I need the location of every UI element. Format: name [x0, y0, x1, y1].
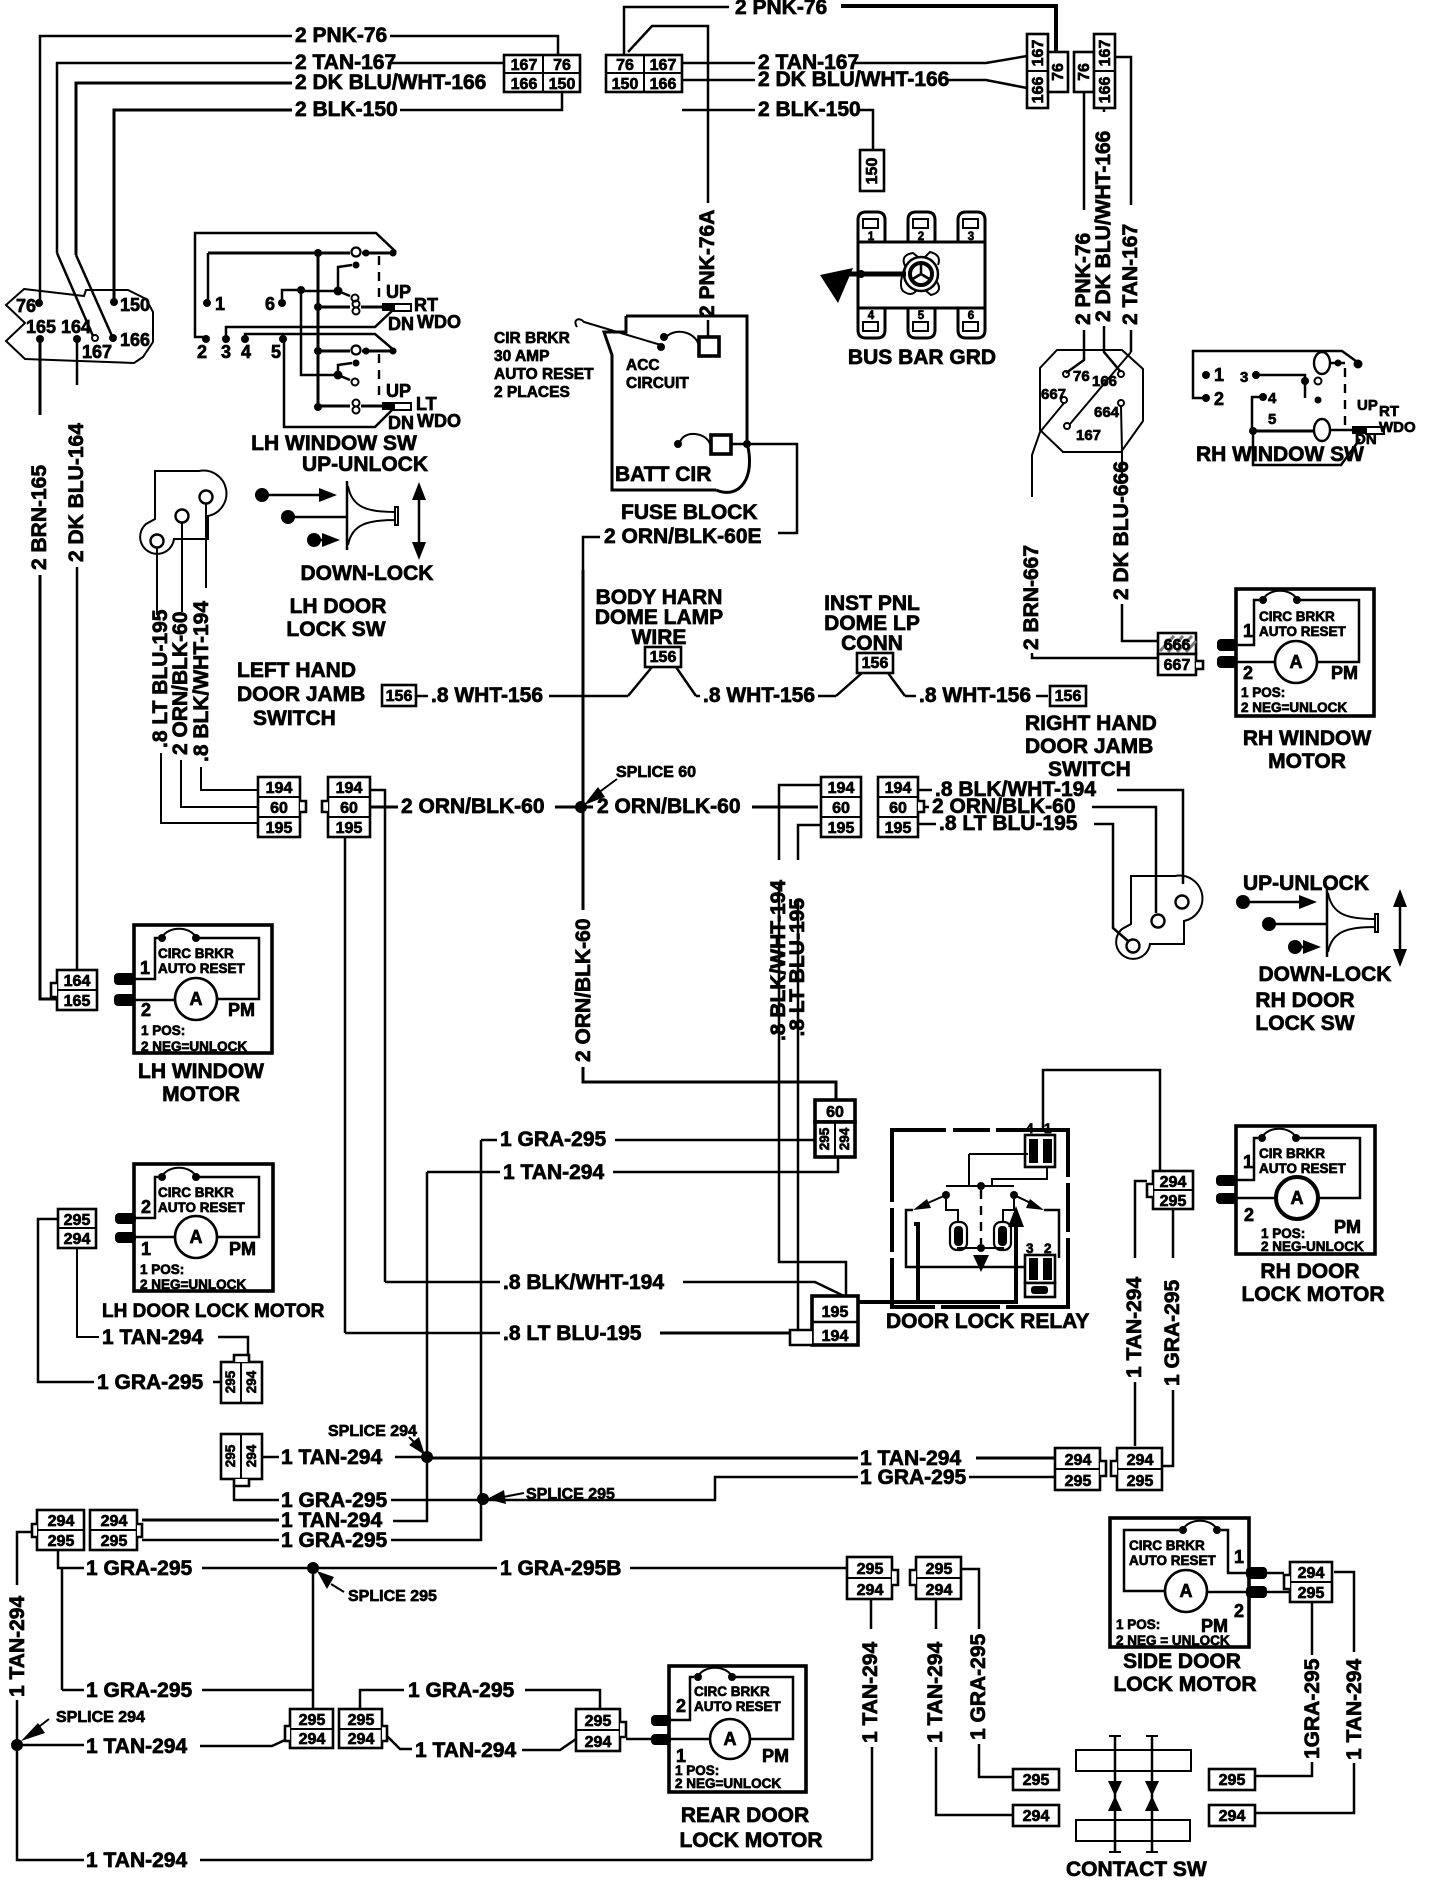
wire [390, 36, 558, 55]
svg-text:PM: PM [1331, 663, 1358, 683]
svg-text:294: 294 [244, 1370, 259, 1393]
wire 1 GRA-295 drop [1172, 1209, 1175, 1258]
svg-text:CONTACT SW: CONTACT SW [1066, 1858, 1207, 1880]
wire tan-294 vertical to splice294 [426, 1172, 429, 1457]
side door lock motor [1110, 1518, 1267, 1648]
svg-text:RIGHT HAND: RIGHT HAND [1025, 712, 1157, 735]
svg-text:2 NEG-UNLOCK: 2 NEG-UNLOCK [1261, 1239, 1364, 1254]
wire 664 drop [1121, 406, 1122, 478]
svg-text:.8 WHT-156: .8 WHT-156 [431, 684, 543, 707]
svg-text:164: 164 [64, 973, 91, 990]
wire .8 WHT-156 mid [696, 695, 700, 698]
svg-text:150: 150 [612, 76, 639, 93]
pin 2 [202, 335, 210, 343]
svg-text:60: 60 [270, 800, 288, 817]
svg-text:.8 LT BLU-195: .8 LT BLU-195 [503, 1322, 642, 1345]
svg-text:295: 295 [1023, 1772, 1050, 1789]
svg-text:294: 294 [1065, 1452, 1092, 1469]
wire TAN-167 diagonal into breakout [57, 253, 93, 336]
svg-text:295: 295 [348, 1712, 375, 1729]
wire [841, 6, 1056, 52]
wire .8 BLK/WHT-194 relay row [385, 1281, 500, 1284]
connector 294/295 pair I [1055, 1448, 1106, 1490]
svg-text:2 NEG=UNLOCK: 2 NEG=UNLOCK [140, 1277, 246, 1292]
dashed center [980, 1190, 982, 1244]
wire 2 TAN-167 right drop [1115, 57, 1131, 205]
svg-text:AUTO RESET: AUTO RESET [1259, 624, 1347, 639]
svg-text:PM: PM [1334, 1217, 1361, 1237]
svg-text:2 NEG=UNLOCK: 2 NEG=UNLOCK [1241, 700, 1347, 715]
svg-text:60: 60 [832, 800, 850, 817]
connector zigzag breakout [6, 289, 153, 363]
svg-text:ACC: ACC [626, 357, 660, 374]
rh door lock sw plate [1116, 876, 1202, 959]
svg-text:2 PLACES: 2 PLACES [494, 384, 570, 401]
svg-text:295: 295 [64, 1212, 91, 1229]
svg-text:6: 6 [968, 310, 974, 322]
ground arrow [820, 268, 853, 303]
wire 60E from batt terminal [731, 444, 797, 533]
svg-text:2: 2 [141, 1197, 151, 1217]
wire top loop pin2 [195, 233, 396, 337]
connector 76 cell left [1048, 52, 1068, 92]
wire 1 TAN-294 relay row [427, 1171, 500, 1174]
svg-text:1: 1 [1044, 1121, 1052, 1136]
svg-text:294: 294 [1219, 1808, 1246, 1825]
wire col2 195 bottom drop [344, 837, 347, 1333]
svg-text:150: 150 [864, 158, 881, 185]
connector 295/294 pair G [285, 1709, 333, 1748]
svg-text:295: 295 [299, 1712, 326, 1729]
svg-text:SPLICE 294: SPLICE 294 [56, 1709, 145, 1726]
wire .8 WHT-156 [416, 695, 428, 698]
svg-text:295: 295 [1298, 1585, 1325, 1602]
svg-text:194: 194 [266, 780, 293, 797]
pin 166 [109, 334, 117, 342]
svg-text:76: 76 [616, 57, 634, 74]
svg-text:1 GRA-295B: 1 GRA-295B [500, 1557, 621, 1580]
contact circle [352, 248, 361, 257]
oval contact top [1314, 352, 1330, 374]
pin 166 oct [1118, 371, 1124, 377]
svg-text:AUTO RESET: AUTO RESET [158, 1200, 246, 1215]
lh window motor [114, 925, 272, 1054]
lh door lock sw plate [140, 471, 226, 554]
wire relay to rh motor conn [1043, 1070, 1160, 1171]
tab 5 [908, 308, 935, 338]
wire 2 PNK-76 top bus [624, 7, 729, 55]
connector 60/295/294 [815, 1100, 855, 1157]
svg-text:2: 2 [1244, 1205, 1254, 1225]
svg-text:CIR BRKR: CIR BRKR [494, 330, 570, 347]
svg-text:294: 294 [1160, 1174, 1187, 1191]
svg-text:1 TAN-294: 1 TAN-294 [6, 1596, 29, 1697]
top loop [1193, 351, 1360, 398]
splice 295 lower [307, 1562, 319, 1574]
svg-text:295: 295 [1160, 1193, 1187, 1210]
svg-text:2 BLK-150: 2 BLK-150 [758, 98, 861, 121]
svg-text:MOTOR: MOTOR [1268, 750, 1346, 773]
terminal ACC [699, 337, 719, 356]
svg-text:A: A [190, 989, 203, 1009]
pin 664 oct [1118, 400, 1124, 406]
wire 2 TAN-167 left row [57, 63, 292, 253]
wire 1 TAN-294 from K [870, 1599, 873, 1629]
double arrow right [1399, 903, 1402, 953]
svg-text:4: 4 [1026, 1121, 1034, 1136]
connector 295/294 lh [58, 1209, 96, 1248]
svg-text:294: 294 [1127, 1452, 1154, 1469]
svg-text:1 POS:: 1 POS: [1241, 685, 1285, 700]
svg-text:LOCK SW: LOCK SW [286, 618, 385, 641]
svg-text:294: 294 [48, 1513, 75, 1530]
svg-text:76: 76 [16, 296, 36, 316]
svg-text:294: 294 [837, 1127, 852, 1150]
svg-text:LH WINDOW: LH WINDOW [138, 1060, 264, 1083]
wire 2 TAN-167 middle row [682, 62, 755, 65]
wire 1 GRA-295 row 1690 right [360, 1690, 404, 1709]
wire 1 TAN-294 drop [1135, 1181, 1147, 1258]
svg-text:664: 664 [1094, 404, 1120, 421]
dashed link RT [378, 256, 380, 303]
svg-text:60: 60 [889, 800, 907, 817]
svg-text:2 PNK-76: 2 PNK-76 [295, 24, 387, 47]
wire 2 BLK-150 middle row [682, 109, 755, 112]
svg-text:1 TAN-294: 1 TAN-294 [924, 1642, 947, 1743]
svg-text:A: A [724, 1729, 737, 1749]
connector 150 vertical box [860, 150, 884, 191]
rh window motor [1217, 589, 1374, 716]
connector 666 box [1158, 633, 1196, 654]
svg-text:SIDE DOOR: SIDE DOOR [1123, 1650, 1241, 1673]
wire [400, 93, 562, 110]
svg-text:UP: UP [386, 381, 411, 401]
svg-text:295: 295 [817, 1127, 832, 1150]
svg-text:1 GRA-295: 1 GRA-295 [86, 1557, 193, 1580]
svg-text:156: 156 [862, 655, 889, 672]
svg-text:RH DOOR: RH DOOR [1260, 1260, 1359, 1283]
coils [950, 1222, 967, 1250]
wire tab to bar [626, 1738, 651, 1741]
svg-text:194: 194 [885, 780, 912, 797]
connector 294/295 pair J [1111, 1448, 1162, 1490]
connector 295 left ctsw [1013, 1769, 1059, 1790]
wire UP row LT [318, 350, 350, 353]
wire .8 BLK/WHT-194 drop [205, 504, 207, 588]
splice 294 lower [11, 1739, 23, 1751]
svg-text:REAR DOOR: REAR DOOR [681, 1804, 809, 1827]
wire 2 ORN/BLK-60 drop [181, 523, 183, 612]
svg-text:295: 295 [223, 1444, 238, 1467]
breaker curl BATT [674, 440, 682, 448]
svg-text:165: 165 [64, 993, 91, 1010]
rh window switch [1193, 351, 1416, 465]
svg-text:LOCK MOTOR: LOCK MOTOR [1113, 1673, 1256, 1696]
svg-text:CIRC BRKR: CIRC BRKR [694, 1684, 770, 1699]
svg-text:76: 76 [553, 57, 571, 74]
svg-text:DOOR JAMB: DOOR JAMB [237, 683, 365, 706]
svg-text:295: 295 [48, 1533, 75, 1550]
connector 294/295 pair F [90, 1510, 142, 1550]
svg-text:1 TAN-294: 1 TAN-294 [503, 1161, 604, 1184]
tab 6 [958, 308, 985, 338]
wire col3 194 feed [779, 785, 821, 860]
svg-text:2: 2 [676, 1696, 686, 1716]
svg-text:1 POS:: 1 POS: [1116, 1617, 1160, 1632]
svg-text:1: 1 [140, 958, 150, 978]
svg-text:166: 166 [1030, 77, 1047, 104]
connector C200 2x2 table left [504, 55, 580, 93]
splice 294 upper [421, 1451, 433, 1463]
wire splice295 drop to box G [312, 1570, 315, 1709]
svg-text:CONN: CONN [841, 632, 903, 655]
svg-text:1 POS:: 1 POS: [140, 1262, 184, 1277]
svg-text:CIRC BRKR: CIRC BRKR [1259, 609, 1335, 624]
pin 167 [92, 335, 98, 341]
splice 295 upper [477, 1493, 489, 1505]
pin 165 [36, 335, 44, 343]
wire pin4 row [245, 334, 396, 352]
connector 164/165 [51, 970, 97, 1010]
wire pin5 DN row LT [284, 339, 393, 427]
wire UP row RT [208, 252, 350, 255]
wire col3 195 feed [798, 825, 821, 860]
coil links [946, 1199, 1014, 1250]
connector octagon [1040, 350, 1143, 452]
svg-text:2 PNK-76A: 2 PNK-76A [696, 210, 719, 317]
breaker arc [1259, 596, 1267, 604]
svg-text:4: 4 [1268, 390, 1277, 407]
svg-text:167: 167 [82, 342, 112, 362]
wire pin1 [207, 253, 210, 302]
wire 1 TAN-294 row 1750 right [387, 1736, 412, 1749]
SECTION-H lh door lock motor [115, 1164, 273, 1292]
ground wheel [904, 257, 938, 291]
pin 167 oct [1064, 423, 1070, 429]
svg-text:UP: UP [1357, 397, 1378, 414]
svg-text:1 GRA-295: 1 GRA-295 [281, 1529, 388, 1552]
svg-text:295: 295 [1219, 1772, 1246, 1789]
tab 4 [858, 308, 885, 338]
svg-text:666: 666 [1164, 637, 1191, 654]
svg-text:1 TAN-294: 1 TAN-294 [102, 1326, 203, 1349]
svg-text:1 GRA-295: 1 GRA-295 [1161, 1279, 1184, 1386]
connector 156 inst pnl [857, 653, 893, 673]
svg-text:2: 2 [197, 342, 207, 362]
svg-text:DN: DN [388, 314, 414, 334]
pin 667 oct [1061, 397, 1067, 403]
body [858, 242, 985, 308]
svg-text:WDO: WDO [1379, 419, 1416, 436]
svg-text:1 GRA-295: 1 GRA-295 [967, 1633, 990, 1740]
svg-text:2 ORN/BLK-60: 2 ORN/BLK-60 [401, 795, 545, 818]
wire 2 PNK-76A diagonal [628, 26, 708, 203]
connector 295/294 L [910, 1557, 961, 1599]
svg-text:2 TAN-167: 2 TAN-167 [1119, 224, 1142, 325]
connector 295 right ctsw [1209, 1769, 1255, 1790]
pin 164 [73, 335, 81, 343]
wire 667 drop [1032, 403, 1064, 497]
connector 156 body harn [645, 647, 681, 667]
svg-text:156: 156 [650, 649, 677, 666]
svg-text:166: 166 [511, 76, 538, 93]
connector stack 167/166 right [1094, 34, 1115, 108]
svg-text:PM: PM [228, 1000, 255, 1020]
top connector 4/1 [1025, 1135, 1055, 1167]
dashed link [1344, 368, 1346, 425]
svg-text:A: A [1291, 1188, 1304, 1208]
contacts [977, 1182, 985, 1190]
connector col2 194/60/195 [322, 777, 370, 837]
connector col3 194/60/195 [821, 777, 861, 837]
svg-text:FUSE BLOCK: FUSE BLOCK [621, 501, 758, 524]
svg-text:2 BRN-667: 2 BRN-667 [1020, 545, 1043, 650]
connector 156 left [382, 685, 416, 706]
svg-text:295: 295 [101, 1533, 128, 1550]
wire bars to connector [1267, 1572, 1284, 1575]
svg-text:LOCK MOTOR: LOCK MOTOR [1241, 1283, 1384, 1306]
wiper RT [303, 265, 352, 291]
svg-text:150: 150 [549, 76, 576, 93]
svg-text:A: A [1180, 1581, 1193, 1601]
svg-text:PM: PM [762, 1746, 789, 1766]
splice 60 [575, 801, 587, 813]
svg-text:1 TAN-294: 1 TAN-294 [281, 1446, 382, 1469]
trumpet right [1326, 888, 1329, 957]
fuse block outline [626, 316, 747, 443]
right contact path [1044, 1210, 1059, 1258]
svg-text:2 BRN-165: 2 BRN-165 [28, 465, 51, 570]
svg-text:294: 294 [299, 1731, 326, 1748]
svg-text:.8 WHT-156: .8 WHT-156 [919, 684, 1031, 707]
svg-text:1 TAN-294: 1 TAN-294 [415, 1739, 516, 1762]
connector stack 167/166 left [1027, 34, 1048, 108]
svg-text:RH DOOR: RH DOOR [1255, 989, 1354, 1012]
svg-text:2 NEG=UNLOCK: 2 NEG=UNLOCK [675, 1776, 781, 1791]
svg-text:CIRC BRKR: CIRC BRKR [1129, 1538, 1205, 1553]
tab 3 [958, 212, 985, 242]
svg-text:294: 294 [348, 1731, 375, 1748]
svg-text:LOCK SW: LOCK SW [1255, 1012, 1354, 1035]
svg-text:2 ORN/BLK-60E: 2 ORN/BLK-60E [604, 525, 762, 548]
thick up arrow [858, 1222, 1016, 1302]
wire 1 GRA-295 row 1500 [234, 1486, 279, 1500]
svg-text:1 GRA-295: 1 GRA-295 [860, 1466, 967, 1489]
svg-text:DOOR JAMB: DOOR JAMB [1025, 735, 1153, 758]
svg-text:167: 167 [1097, 40, 1114, 67]
svg-text:295: 295 [223, 1370, 238, 1393]
connector LT WDO [382, 402, 394, 410]
contact sw [1076, 1736, 1191, 1852]
wire 2 BRN-165 [39, 339, 42, 415]
wire 1 TAN-294 left vertical [17, 1532, 32, 1585]
svg-text:LH DOOR: LH DOOR [290, 595, 387, 618]
connector 294/295 pair E [32, 1510, 84, 1550]
svg-text:WDO: WDO [417, 312, 461, 332]
bottom loop [1253, 434, 1360, 465]
trumpet [346, 481, 349, 550]
svg-text:667: 667 [1164, 657, 1191, 674]
svg-text:CIR BRKR: CIR BRKR [1259, 1146, 1325, 1161]
svg-text:294: 294 [101, 1513, 128, 1530]
wire [388, 62, 504, 65]
connector 295/294 rear [576, 1709, 626, 1751]
svg-text:PM: PM [229, 1239, 256, 1259]
svg-text:166: 166 [1092, 373, 1117, 390]
SECTION-I rh door lock motor [1216, 1126, 1375, 1254]
svg-text:WIRE: WIRE [632, 626, 687, 649]
svg-text:295: 295 [1065, 1473, 1092, 1490]
svg-text:295: 295 [585, 1713, 612, 1730]
rear door lock motor [651, 1666, 806, 1792]
up-unlock arrows right [1236, 895, 1250, 909]
wire pin3 DN row [226, 310, 393, 339]
wire 2 DK BLU/WHT-166 right drop [1103, 108, 1106, 112]
wire 1 TAN-294 row 1520 [142, 1519, 279, 1522]
wiper LT [338, 363, 352, 375]
wire V legs [628, 667, 696, 696]
svg-text:76: 76 [1050, 63, 1067, 81]
svg-text:3: 3 [221, 342, 231, 362]
svg-text:167: 167 [650, 57, 677, 74]
svg-text:294: 294 [1298, 1565, 1325, 1582]
wire 2 PNK-76 left row [40, 36, 292, 303]
svg-text:2 PNK-76: 2 PNK-76 [735, 0, 827, 19]
svg-text:A: A [1290, 652, 1303, 672]
svg-text:CIRCUIT: CIRCUIT [626, 375, 689, 392]
svg-text:LOCK MOTOR: LOCK MOTOR [679, 1829, 822, 1852]
pin 5 [279, 335, 287, 343]
connector col4 194/60/195 [878, 777, 924, 837]
motor circle [1275, 641, 1317, 683]
svg-text:1 TAN-294: 1 TAN-294 [1343, 1659, 1366, 1760]
wire 2 ORN/BLK-60 row right [924, 806, 929, 809]
svg-text:1 GRA-295: 1 GRA-295 [500, 1128, 607, 1151]
svg-text:165: 165 [26, 317, 56, 337]
svg-text:195: 195 [885, 820, 912, 837]
svg-text:2: 2 [1214, 389, 1224, 409]
svg-text:1 GRA-295: 1 GRA-295 [97, 1371, 204, 1394]
connector 295|294 pair row1457 [221, 1434, 262, 1486]
svg-text:1 TAN-294: 1 TAN-294 [859, 1642, 882, 1743]
svg-text:294: 294 [926, 1582, 953, 1599]
breaker curl ACC [657, 343, 665, 351]
connector 295/294 pair H [339, 1709, 387, 1748]
svg-text:194: 194 [336, 780, 363, 797]
svg-text:UP: UP [386, 282, 411, 302]
svg-text:1: 1 [1214, 365, 1224, 385]
svg-text:166: 166 [1097, 77, 1114, 104]
svg-text:295: 295 [926, 1561, 953, 1578]
double arrow [418, 496, 421, 546]
pin 76 oct [1063, 371, 1069, 377]
svg-text:166: 166 [650, 76, 677, 93]
svg-text:2 DK BLU/WHT-166: 2 DK BLU/WHT-166 [1092, 131, 1115, 322]
pin 3 wiring [1252, 371, 1260, 379]
svg-text:DOWN-LOCK: DOWN-LOCK [301, 562, 434, 585]
connector 294 right ctsw [1209, 1805, 1255, 1826]
wire DK BLU/WHT-166 diagonal into breakout [76, 255, 112, 336]
wire 2 DK BLU/WHT-166 left row [76, 83, 292, 255]
svg-text:156: 156 [386, 688, 413, 705]
wire .8 BLK/WHT-194 row right [918, 789, 932, 792]
svg-text:SWITCH: SWITCH [253, 707, 336, 730]
svg-text:LH DOOR LOCK MOTOR: LH DOOR LOCK MOTOR [102, 1301, 325, 1322]
wire 1 GRA-295 row 1568 [58, 1550, 84, 1568]
svg-text:CIRC BRKR: CIRC BRKR [158, 946, 234, 961]
svg-text:.8 LT BLU-195: .8 LT BLU-195 [939, 812, 1078, 835]
svg-text:5: 5 [918, 310, 925, 322]
